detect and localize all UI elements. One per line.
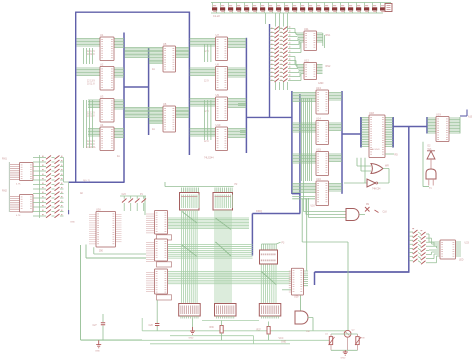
wire X5 top rail [262,242,281,244]
svg-text:GND: GND [281,342,286,344]
diode array D3-D30 [46,156,60,218]
connector X4 [259,304,281,317]
wire pins left [88,100,100,108]
svg-text:U16: U16 [311,206,316,208]
resistor array R20-R35 [413,230,426,264]
IC U13 [316,86,329,114]
svg-text:10 11 8: 10 11 8 [87,54,95,56]
pin stubs RN2 [10,196,20,211]
wire bus E [245,38,247,153]
pin numbers matrix [271,27,290,80]
svg-text:CLK: CLK [383,212,388,214]
svg-text:U16: U16 [316,177,321,181]
svg-text:GAL16V8: GAL16V8 [370,148,380,151]
IC U18 [369,111,385,158]
capacitor C19 [356,5,361,12]
wire pins below X3 [217,316,234,319]
connector X5 [260,250,278,264]
AND gate U30 [295,311,308,324]
resistor network RN2 [20,195,34,213]
wire bus G [269,24,271,118]
wire rail A [142,330,348,332]
svg-text:VCC: VCC [279,338,284,340]
svg-text:U12: U12 [304,59,309,63]
svg-text:C23: C23 [122,194,127,196]
wire gnd route [81,245,143,340]
svg-text:12 9: 12 9 [204,81,209,83]
wire pins right [228,39,247,48]
wire gate links [344,158,371,183]
wire link connectors [202,320,259,322]
IC U7 [216,33,228,61]
wire zener to gate [430,159,432,169]
wire resnet rows [33,158,64,217]
svg-text:U18: U18 [369,111,374,115]
capacitor C7 [260,5,265,12]
connector X3 [215,304,237,317]
IC U3 [100,95,114,123]
wire vertical nets col1 top [84,48,93,64]
resistor matrix R1-R28 [275,27,288,83]
IC U29 [291,268,303,295]
wire pins left [292,154,316,163]
wire pins left [77,68,101,76]
wire crossover C3 [261,272,276,285]
svg-text:12 13 9: 12 13 9 [87,141,95,143]
wire left drop [144,196,146,215]
wire matrix leads [270,29,283,81]
IC U28 [96,212,116,248]
connector X2 [179,304,201,317]
IC U5 [163,42,176,72]
wire pins left [190,39,216,47]
svg-text:U28: U28 [96,209,101,212]
svg-text:RD: RD [395,155,399,157]
capacitor C17 [340,5,345,12]
pin stubs U28 right [116,215,122,242]
svg-text:U15: U15 [316,148,321,152]
wire U28 to U25 [86,245,146,259]
wire jog3 [252,213,300,215]
wire vertical nets col3 bottom [205,100,211,140]
wire pins above X5 [262,244,277,250]
wire cluster bottom [331,334,358,350]
wire U30 out [308,318,313,331]
IC U15 [316,148,329,176]
value box U24 [157,235,172,240]
capacitor C14 [316,5,321,12]
capacitors C23-C26 [122,199,146,203]
wire long right route [302,199,348,331]
capacitor C5 [244,5,249,12]
wire bus B [188,12,190,156]
wire resnet common [8,162,10,212]
svg-text:12 13 9: 12 13 9 [87,81,95,83]
wire matrix to U12 [288,57,304,81]
IC U1 [100,33,114,61]
zener diode D2 [427,151,435,159]
wire cap bottom leads [217,11,377,14]
svg-text:RN1: RN1 [2,158,7,161]
svg-text:LED: LED [459,260,464,262]
wire C27 leads [102,314,104,340]
IC U8 [216,63,228,91]
wire vertical nets col3 top [205,44,211,62]
wire bus A left [75,12,77,182]
wire pins right [228,99,247,108]
svg-text:10K: 10K [306,331,310,333]
wire pins left [77,39,101,47]
svg-text:U5: U5 [163,42,167,46]
svg-text:12 9: 12 9 [204,141,209,143]
svg-text:GND: GND [189,338,194,340]
capacitor C21 [372,5,377,12]
wire pins above RP1 [182,188,199,193]
wire net right [459,117,461,134]
capacitor C22 [380,5,385,12]
transistor Q2 [344,330,351,350]
wire crossover A1 [182,212,197,224]
svg-text:U13: U13 [316,86,321,90]
capacitor C20 [364,5,369,12]
wire pins right [329,93,342,101]
capacitor C1 [212,5,217,12]
labels array [412,229,422,260]
svg-text:1A: 1A [152,68,155,71]
wire pins right [176,108,190,118]
capacitor C28 [155,324,159,326]
wire bus D [148,48,150,135]
wire U28 to U25 b [94,247,146,254]
resistor R38 [355,334,361,350]
IC U23 [440,240,456,259]
svg-text:C28: C28 [149,325,154,327]
wire bus H [299,94,301,194]
capacitor C27 [101,323,105,325]
wire link C-D [124,86,149,88]
capacitor C3 [228,5,233,12]
resistor R36 [220,321,223,341]
svg-text:74LS244: 74LS244 [204,157,214,160]
wire crossover B1 [216,218,232,230]
capacitor C12 [300,5,305,12]
svg-text:1A: 1A [152,128,155,131]
wire pins below X4 [262,316,279,319]
wire U18 pins right [385,118,393,147]
capacitor C13 [308,5,313,12]
capacitor C8 [268,5,273,12]
wire OR out [378,169,389,184]
wire bus L [408,127,410,273]
wire pins right [114,39,124,48]
resistor pack RP2 [213,193,233,211]
wire bus F [291,91,293,194]
svg-text:4A: 4A [117,155,120,158]
wire bus top [75,11,189,13]
wire header drops [266,13,288,30]
capacitor C9 [276,5,281,12]
wire rail B [81,339,330,341]
wire pins right [176,48,190,58]
svg-text:U2: U2 [100,63,104,67]
wire AND inputs [304,181,347,218]
wire pins right [114,100,124,109]
gate U22 [426,169,436,179]
IC U16 [316,177,329,206]
svg-text:C1-22: C1-22 [213,15,220,18]
capacitor C15 [324,5,329,12]
wire band3 [168,272,291,284]
svg-text:U14: U14 [316,117,321,121]
IC U2 [100,63,114,91]
wire pins left [190,68,216,76]
wire bus J [360,117,362,148]
IC U6 [163,102,176,132]
IC U26 [155,269,168,294]
IC U12 [304,59,317,80]
wire AND output [359,214,365,216]
wire bus I [341,91,343,194]
wire bus M [426,117,428,134]
wire pins left [190,99,216,107]
svg-text:U6: U6 [163,102,167,106]
svg-text:10 11 8: 10 11 8 [87,116,95,118]
wire pins left long [125,108,164,118]
svg-text:10 11 8: 10 11 8 [87,84,95,86]
wire X2 to ground [192,319,194,328]
wire block verticals [302,98,312,181]
svg-text:A15: A15 [468,116,473,119]
wire band1 [168,218,249,229]
resistor R10 [375,210,379,213]
wire pins left short [149,59,163,63]
pin stubs RN1 [10,164,20,179]
wire pins right [329,123,342,131]
svg-text:U11: U11 [304,27,309,31]
wire U29 in [282,289,291,291]
wire cap top leads [213,3,381,8]
wire stub [68,210,70,214]
wire matrix to U11 [288,29,304,53]
svg-text:12 13 9: 12 13 9 [87,51,95,53]
capacitor C2 [220,5,225,12]
wire rail A rise [141,318,143,331]
wire data link resnet [69,181,125,183]
wire pins left [88,129,100,137]
wire pins right [329,154,342,162]
transistor Q1 [329,334,335,350]
value box U26 [157,295,172,300]
wire gate legs [429,179,433,186]
wire array to U23 [426,234,440,263]
IC U25 [155,239,168,261]
wire pins right [228,129,247,138]
svg-text:4.7K: 4.7K [16,184,21,186]
wire pins right [329,184,342,192]
wire crossover B2 [216,242,232,256]
svg-text:12 13 9: 12 13 9 [87,113,95,115]
wire U29 pins right [304,271,309,286]
IC U14 [316,117,329,145]
wire U16 low pins [292,197,315,199]
wire U11 links [323,33,325,48]
wire pins left short [149,119,163,123]
resistor network RN1 [20,163,34,181]
inverter bubble U21 [376,182,378,184]
wire label stub h [460,115,467,117]
svg-text:GND: GND [318,82,324,85]
wire jog4 [251,214,253,256]
wire pins right [114,129,124,138]
wire feedback [423,142,429,187]
wire U12 pins right [317,65,323,74]
wire pins left [292,184,316,193]
wire U23 pins right [456,242,462,256]
ground 2 [190,327,195,334]
svg-text:4.7K: 4.7K [16,215,21,217]
svg-text:U7: U7 [216,33,220,37]
wire bus E taps [238,104,246,135]
wire link I-J [342,133,361,135]
svg-text:GND: GND [70,222,75,224]
wire crossover A2 [182,245,197,257]
capacitor C11 [292,5,297,12]
wire resnet vertical [39,155,41,218]
svg-text:U23: U23 [465,242,470,245]
wire pins left [292,93,316,102]
wire link E-F [246,116,292,118]
wire jog1 [292,193,300,195]
wire U18 out [385,153,394,155]
wire pins above RP2 [215,188,232,193]
pin stubs U24 [146,214,155,233]
svg-text:RN2: RN2 [2,190,7,193]
svg-text:U9: U9 [216,93,220,97]
wire caps rail [120,195,146,197]
svg-text:U29: U29 [294,296,299,299]
capacitor C18 [348,5,353,12]
svg-text:RN2: RN2 [326,65,331,68]
wire vertical nets col1 bottom [84,100,93,148]
inverter U21 [367,179,376,187]
diode D1 [365,207,370,212]
wire link K-M [393,126,427,128]
wire U19 pins left [427,118,436,133]
wire pins right [114,68,124,77]
svg-text:74HC04: 74HC04 [372,189,381,191]
pin stubs U28 left [89,215,96,244]
wire U19 pins right [449,118,460,133]
IC U9 [216,93,228,121]
wire band2 [168,245,253,259]
value box U25 [157,262,172,267]
svg-text:C27: C27 [93,325,98,327]
svg-text:GND: GND [341,358,346,360]
svg-text:U10: U10 [216,123,221,127]
wire label stub v [466,110,468,117]
wire U11 pins right [317,33,323,42]
svg-text:U19: U19 [436,113,441,117]
capacitor C4 [236,5,241,12]
wire down to U29 [306,199,308,271]
wire pins left long [125,48,164,58]
wire cap leads [124,196,144,211]
capacitor C16 [332,5,337,12]
wire pins below X2 [181,316,198,319]
wire pins left [190,129,216,137]
wire GND rail [211,12,383,14]
wire U29 to U30 [300,296,302,312]
wire long bottom link [315,271,410,273]
svg-text:R37: R37 [257,330,262,332]
IC U10 [216,123,228,151]
wire bundleC [261,265,276,303]
svg-text:U8: U8 [216,63,220,67]
wire drop [314,272,316,285]
IC U4 [100,123,114,151]
wire bus K [392,117,394,148]
wire rail B to Q1 [329,337,331,340]
wire VCC rail [211,2,391,4]
ground [96,340,101,348]
resistor R37 [267,322,270,341]
svg-text:10 11 8: 10 11 8 [87,144,95,146]
capacitor C6 [252,5,257,12]
resistor pack RP1 [180,193,200,211]
wire pins left [292,123,316,132]
wire rail C [150,336,290,344]
svg-text:IORQ: IORQ [256,211,262,213]
wire pins right [228,68,247,77]
ground 3 [343,350,348,355]
pin stubs U26 [146,273,155,292]
svg-text:RN1: RN1 [326,34,331,37]
wire bundleB [215,210,231,303]
svg-text:1A 2A 3A: 1A 2A 3A [86,146,96,149]
IC U11 [304,27,317,51]
wire array leads [409,232,421,263]
AND gate U17 [346,209,359,221]
wire jog2 [299,194,301,214]
IC U19 [436,113,449,142]
wire matrix tails [276,82,288,90]
svg-text:D[0..7]: D[0..7] [83,180,90,182]
wire resnet collect1 [64,158,69,183]
OR gate U20 [371,164,383,174]
wire bundleA [182,210,198,303]
wire rail above packs [165,182,234,187]
wire bus C [123,33,125,183]
svg-text:U1: U1 [100,33,104,37]
connector J1 [385,4,392,12]
svg-text:U3: U3 [100,95,104,99]
wire resnet collect2 [68,183,70,211]
wire U18 pins left [361,118,369,147]
svg-text:WR: WR [385,166,389,168]
pin stubs U25 [146,243,155,262]
svg-text:R36: R36 [210,327,215,329]
capacitor C10 [284,5,289,12]
pin stubs U29 left [289,271,292,292]
IC U24 [155,211,168,235]
svg-text:GND: GND [95,351,100,353]
labels resnet rows [42,156,62,215]
wire C28 leads [156,300,158,331]
svg-text:U4: U4 [100,123,104,127]
